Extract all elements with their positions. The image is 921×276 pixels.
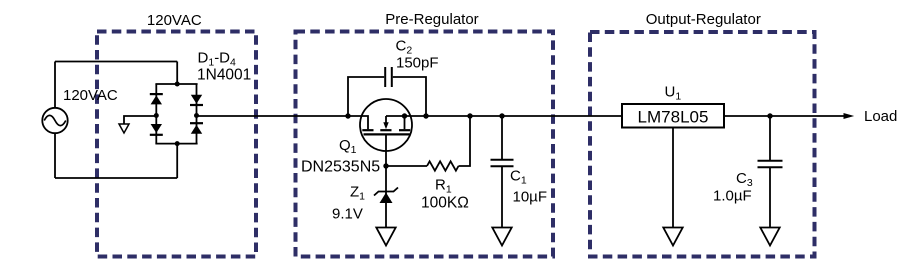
diode D4 bottom-right — [190, 123, 203, 134]
wire: R1 to main rail — [459, 116, 471, 166]
diode D3 top-right — [190, 95, 203, 105]
svg-text:Load: Load — [864, 108, 897, 125]
wire: main rail Q1 to U1 — [412, 115, 622, 117]
Q1 body arrow — [383, 116, 388, 129]
svg-text:DN2535N5: DN2535N5 — [301, 158, 380, 175]
wire: bridge left branch — [155, 84, 157, 144]
capacitor C2 left lead — [348, 77, 384, 116]
capacitor C3 bottom lead — [769, 168, 771, 228]
Q1 source foot — [399, 129, 410, 131]
ground under Z1 — [376, 228, 395, 246]
AC source V1 circle — [42, 108, 67, 133]
diode D2 bottom-left — [150, 124, 163, 135]
node bridge top — [175, 82, 180, 87]
node bridge mid-left — [154, 113, 159, 118]
svg-text:Output-Regulator: Output-Regulator — [646, 11, 761, 28]
transistor Q1 circle — [360, 99, 412, 151]
regulator U1 box — [622, 104, 724, 128]
ground small near bridge — [119, 124, 129, 133]
ground under C3 — [760, 228, 779, 246]
node bridge mid-right — [194, 113, 199, 118]
node bridge bottom — [175, 141, 180, 146]
node Q1 source tie — [402, 113, 407, 118]
capacitor C3 top lead — [769, 116, 771, 160]
load arrowhead — [844, 113, 855, 119]
dashed section box Pre-Regulator — [296, 32, 554, 257]
svg-text:150pF: 150pF — [396, 54, 439, 71]
node R1 top — [467, 113, 472, 118]
Q1 source rail (right) — [386, 115, 412, 117]
wire: bridge bottom feed — [176, 144, 178, 178]
Q1 body foot — [380, 129, 391, 131]
zener Z1 — [374, 188, 398, 204]
wire: bridge right branch — [196, 84, 198, 144]
svg-text:1N4001: 1N4001 — [197, 66, 251, 83]
ground under C1 — [492, 228, 511, 246]
svg-text:10µF: 10µF — [513, 189, 548, 206]
node gate — [383, 163, 388, 168]
dashed section box 120VAC — [97, 32, 256, 257]
diode D1 top-left — [150, 94, 163, 104]
capacitor C1 top lead — [501, 116, 503, 159]
wire: zener to ground — [385, 203, 387, 228]
svg-text:1.0µF: 1.0µF — [713, 188, 752, 205]
AC source sine wave — [44, 115, 66, 125]
wire: source loop top — [55, 61, 177, 63]
svg-text:120VAC: 120VAC — [63, 87, 118, 104]
capacitor C3 plates — [758, 161, 783, 168]
node C2 left — [345, 113, 350, 118]
capacitor C2 right lead — [393, 77, 426, 116]
wire: bridge top bar — [155, 83, 197, 85]
Q1 drain contact (left) — [360, 116, 368, 129]
svg-text:100KΩ: 100KΩ — [421, 195, 469, 212]
wire: U1 ground lead — [672, 128, 674, 228]
wire: bridge mid-left to ground — [124, 116, 156, 124]
wire: gate node to R1 — [386, 165, 427, 167]
capacitor C2 plates — [385, 67, 392, 87]
Q1 drain foot — [362, 129, 373, 131]
wire: bridge top feed — [176, 62, 178, 85]
svg-text:9.1V: 9.1V — [332, 206, 363, 223]
Q1 gate plate — [364, 133, 410, 135]
wire: gate node to zener — [385, 166, 387, 203]
svg-text:Pre-Regulator: Pre-Regulator — [385, 11, 478, 28]
node C2 right — [423, 113, 428, 118]
node C1 top — [499, 113, 504, 118]
wire: main rail bridge to Q1 — [197, 115, 361, 117]
wire: bridge bottom bar — [155, 143, 197, 145]
capacitor C1 bottom lead — [501, 167, 503, 228]
capacitor C1 plates — [491, 160, 514, 167]
Q1 source contact (right) — [404, 116, 406, 129]
wire: main rail U1 to load — [724, 115, 846, 117]
wire: source loop left — [54, 62, 56, 179]
node C3 top — [767, 113, 772, 118]
svg-text:LM78L05: LM78L05 — [638, 108, 709, 127]
resistor R1 zigzag — [427, 161, 459, 170]
wire: source loop bottom — [55, 177, 177, 179]
Q1 gate lead down — [385, 134, 387, 166]
dashed section box Output-Regulator — [590, 32, 815, 257]
ground under U1 — [663, 228, 682, 246]
svg-text:120VAC: 120VAC — [147, 12, 202, 29]
